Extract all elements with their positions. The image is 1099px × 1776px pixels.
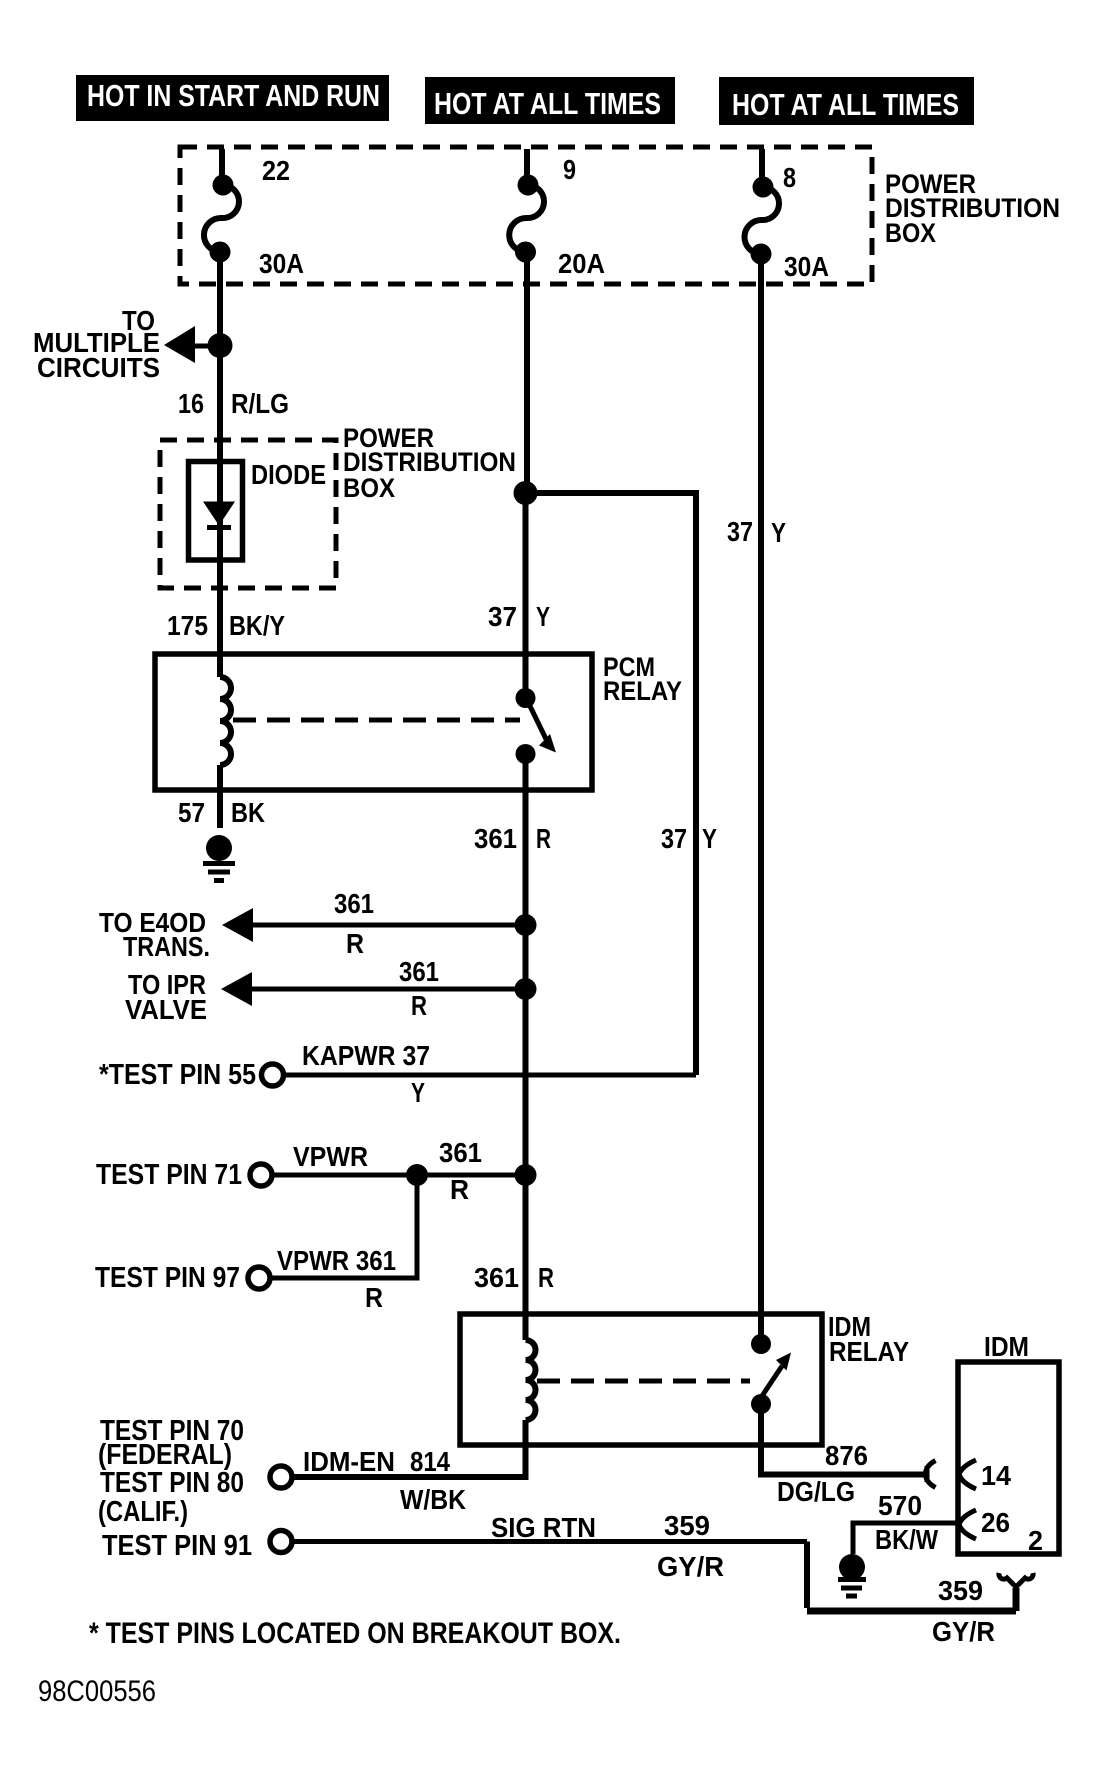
svg-text:*TEST PIN 55: *TEST PIN 55 xyxy=(99,1059,256,1091)
svg-text:9: 9 xyxy=(563,154,576,185)
svg-text:30A: 30A xyxy=(259,248,304,279)
svg-text:8: 8 xyxy=(783,162,796,193)
svg-text:IDM: IDM xyxy=(984,1331,1029,1362)
svg-text:(CALIF.): (CALIF.) xyxy=(98,1496,188,1528)
svg-text:TEST PIN 80: TEST PIN 80 xyxy=(100,1467,244,1499)
svg-text:26: 26 xyxy=(981,1507,1010,1538)
svg-text:R: R xyxy=(538,1262,554,1293)
svg-text:Y: Y xyxy=(702,823,717,854)
svg-text:BK: BK xyxy=(231,797,265,828)
svg-text:R: R xyxy=(411,990,427,1021)
svg-text:TEST PIN 71: TEST PIN 71 xyxy=(96,1159,242,1191)
svg-text:30A: 30A xyxy=(784,251,829,282)
svg-text:570: 570 xyxy=(878,1490,922,1521)
svg-text:HOT IN START AND RUN: HOT IN START AND RUN xyxy=(87,78,380,113)
svg-text:2: 2 xyxy=(1028,1525,1043,1556)
svg-text:Y: Y xyxy=(536,601,550,632)
svg-text:BOX: BOX xyxy=(343,473,395,503)
svg-text:VPWR 361: VPWR 361 xyxy=(277,1245,396,1276)
svg-text:37: 37 xyxy=(727,516,753,547)
svg-text:361: 361 xyxy=(399,956,439,987)
svg-text:VALVE: VALVE xyxy=(125,994,207,1025)
svg-text:37: 37 xyxy=(488,601,517,632)
svg-text:RELAY: RELAY xyxy=(603,676,682,706)
svg-text:37: 37 xyxy=(661,823,687,854)
svg-text:R: R xyxy=(365,1282,383,1313)
svg-text:R: R xyxy=(450,1174,469,1205)
svg-text:14: 14 xyxy=(981,1460,1011,1491)
svg-text:GY/R: GY/R xyxy=(932,1616,995,1647)
svg-text:359: 359 xyxy=(938,1575,983,1606)
svg-text:20A: 20A xyxy=(558,248,605,279)
svg-text:TEST PIN 97: TEST PIN 97 xyxy=(95,1262,240,1294)
svg-text:361: 361 xyxy=(334,888,374,919)
svg-text:DG/LG: DG/LG xyxy=(777,1476,855,1507)
svg-text:W/BK: W/BK xyxy=(400,1484,466,1515)
svg-text:361: 361 xyxy=(474,1262,519,1293)
svg-text:HOT AT ALL TIMES: HOT AT ALL TIMES xyxy=(732,87,959,122)
svg-text:DIODE: DIODE xyxy=(251,459,326,490)
svg-text:R/LG: R/LG xyxy=(231,388,289,419)
svg-text:175: 175 xyxy=(167,610,208,641)
svg-text:IDM-EN: IDM-EN xyxy=(303,1446,395,1477)
svg-text:BOX: BOX xyxy=(885,218,936,248)
svg-text:814: 814 xyxy=(410,1446,450,1477)
svg-text:876: 876 xyxy=(825,1440,868,1471)
svg-text:Y: Y xyxy=(411,1077,425,1108)
svg-text:RELAY: RELAY xyxy=(829,1336,909,1367)
svg-text:16: 16 xyxy=(178,388,204,419)
svg-text:* TEST PINS LOCATED ON BREAKOU: * TEST PINS LOCATED ON BREAKOUT BOX. xyxy=(89,1617,621,1650)
svg-text:Y: Y xyxy=(771,517,786,548)
svg-text:KAPWR 37: KAPWR 37 xyxy=(302,1040,430,1071)
svg-text:57: 57 xyxy=(178,797,205,828)
svg-text:98C00556: 98C00556 xyxy=(38,1675,156,1708)
svg-text:GY/R: GY/R xyxy=(657,1551,724,1582)
svg-text:359: 359 xyxy=(664,1510,710,1541)
svg-text:361: 361 xyxy=(474,823,517,854)
svg-text:CIRCUITS: CIRCUITS xyxy=(37,352,160,383)
svg-text:BK/W: BK/W xyxy=(875,1524,938,1555)
svg-text:22: 22 xyxy=(262,155,290,186)
svg-text:361: 361 xyxy=(439,1137,482,1168)
svg-text:BK/Y: BK/Y xyxy=(229,610,285,641)
svg-text:TEST PIN 91: TEST PIN 91 xyxy=(102,1530,252,1562)
svg-text:R: R xyxy=(346,928,364,959)
svg-text:R: R xyxy=(536,823,551,854)
svg-text:TRANS.: TRANS. xyxy=(123,931,210,962)
svg-text:VPWR: VPWR xyxy=(293,1141,368,1172)
svg-text:HOT AT ALL TIMES: HOT AT ALL TIMES xyxy=(434,86,661,121)
svg-text:SIG RTN: SIG RTN xyxy=(491,1512,596,1543)
